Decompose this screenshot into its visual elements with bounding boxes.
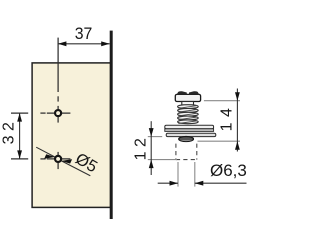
leader line Ø5 — [36, 147, 90, 176]
label 32 — [3, 114, 17, 147]
dim 12 arrows — [149, 128, 154, 137]
mounting plate front view — [32, 63, 111, 208]
dim 14 extension line top (under head) — [204, 100, 240, 102]
dim 12 extension line top — [148, 136, 162, 138]
panel edge (thick wall line) — [110, 31, 113, 219]
dim 14 arrows — [235, 92, 240, 101]
dim 14 extension line bottom — [198, 140, 241, 142]
screw thread coils — [178, 105, 199, 124]
label Ø6,3 — [210, 164, 255, 178]
label Ø5 — [70, 151, 101, 176]
flange bar B — [165, 129, 214, 132]
label 14 — [221, 101, 235, 134]
centerline vertical through holes — [57, 38, 59, 170]
screw head cross recess right wing — [189, 91, 199, 94]
dim Ø6,3 arrows — [170, 181, 179, 186]
flange bar A (plate cross-section top) — [165, 125, 214, 129]
dim 14 line — [236, 89, 238, 152]
screw collar — [182, 102, 194, 106]
hole 2 — [55, 156, 61, 162]
leader Ø5 arrowheads — [44, 154, 55, 158]
dimension 32 arrows — [17, 113, 22, 122]
centerline horizontal hole 2 — [11, 158, 70, 160]
label 37 — [64, 27, 104, 41]
hole 1 — [55, 110, 61, 116]
screw head cross recess left wing — [177, 91, 187, 94]
flange bar C (lower plate) — [166, 133, 216, 136]
hidden dowel dashed outline — [176, 144, 197, 160]
dimension 37 arrows — [58, 41, 67, 46]
dim Ø6,3 line — [158, 182, 247, 184]
dimension 37 line — [58, 43, 110, 45]
dimension 32 line — [19, 113, 21, 159]
thread helix strands — [178, 106, 197, 124]
dim 12 line — [150, 121, 152, 175]
dowel washer under plate — [179, 137, 194, 142]
dim Ø6,3 extension lines — [178, 162, 195, 187]
screw head U-view — [175, 94, 200, 101]
dim 12 extension line bottom — [148, 159, 177, 161]
label 12 — [135, 131, 149, 164]
centerline horizontal hole 1 — [11, 112, 70, 114]
